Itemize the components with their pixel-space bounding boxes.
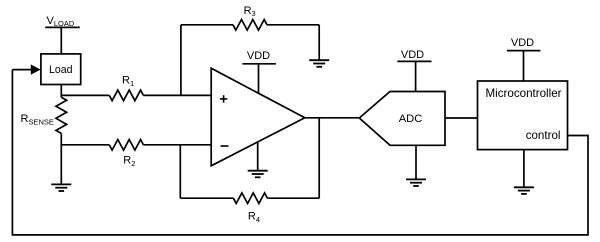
wire R2 to op-amp - input: [143, 144, 211, 146]
load block: [41, 54, 81, 85]
ground ADC: [406, 179, 426, 186]
wire microcontroller to ground: [523, 150, 525, 188]
resistor RSENSE: [21, 97, 67, 133]
supply VDD microcontroller: [507, 37, 541, 81]
wire R3 right: [267, 24, 319, 26]
svg-text:R4: R4: [248, 211, 260, 224]
wire op-amp output to ADC: [305, 117, 360, 119]
resistor R4: [233, 193, 267, 224]
svg-text:R3: R3: [244, 5, 256, 18]
svg-text:R2: R2: [123, 155, 135, 168]
wire feedback loop: left side, bottom, right side to control: [12, 70, 588, 235]
supply VLOAD terminal: [45, 15, 80, 28]
wire R1 to op-amp + input: [143, 94, 211, 96]
resistor R1: [109, 75, 143, 101]
svg-text:VLOAD: VLOAD: [47, 15, 75, 28]
wire R4 left: [180, 197, 233, 199]
ground under RSENSE: [51, 184, 71, 191]
wire output node down to R4: [318, 118, 320, 198]
wire VLOAD to Load: [60, 27, 62, 54]
ground microcontroller: [514, 187, 534, 194]
wire R3 to ground: [318, 25, 320, 60]
ground op-amp: [248, 171, 268, 178]
resistor R2: [109, 140, 143, 168]
supply VDD ADC: [397, 49, 431, 92]
svg-text:VDD: VDD: [247, 50, 270, 62]
wire node B to R2: [61, 144, 109, 146]
supply VDD op-amp: [242, 50, 276, 94]
svg-text:RSENSE: RSENSE: [21, 113, 54, 126]
ADC block: [359, 92, 445, 146]
wire ADC to ground: [415, 145, 417, 179]
svg-text:VDD: VDD: [511, 37, 534, 49]
wire - input node down to R4: [179, 145, 181, 198]
svg-text:Load: Load: [49, 64, 73, 76]
wire Load bottom to node A: [60, 85, 62, 98]
resistor R3: [233, 5, 267, 30]
svg-text:VDD: VDD: [401, 49, 424, 61]
svg-text:Microcontroller: Microcontroller: [485, 87, 561, 100]
wire control feedback into Load with arrowhead: [12, 64, 40, 74]
wire op-amp to ground: [257, 142, 259, 170]
svg-text:R1: R1: [122, 75, 134, 88]
wire to R3 left: [181, 24, 233, 26]
wire ADC output to microcontroller: [445, 117, 478, 119]
wire + input node up to R3: [180, 25, 182, 96]
wire R4 right: [267, 197, 319, 199]
svg-text:ADC: ADC: [399, 113, 423, 125]
op-amp U1: [211, 68, 305, 166]
wire node A to R1: [61, 94, 109, 96]
ground at R3: [309, 60, 329, 67]
svg-text:control: control: [526, 129, 561, 142]
wire node B to ground: [60, 133, 62, 184]
microcontroller block: [478, 81, 568, 150]
